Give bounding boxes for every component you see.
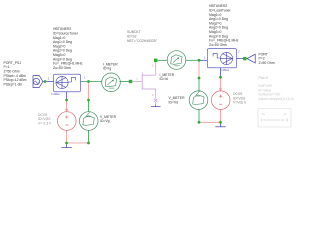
svg-text:Zo=50 Ohm: Zo=50 Ohm [209,43,227,47]
svg-text:3.3Max: 3.3Max [220,68,229,72]
svg-text:V=-2.3 V: V=-2.3 V [38,121,52,125]
svg-text:V=Vds V: V=Vds V [233,101,247,105]
svg-text:Xo: Xo [262,112,266,116]
svg-text:ID=Vd: ID=Vd [169,100,179,104]
svg-text:Z=50 Ohm: Z=50 Ohm [259,61,275,65]
svg-text:ID=Vg: ID=Vg [100,119,110,123]
svg-text:ID=Id: ID=Id [160,77,168,81]
svg-text:. . .: . . . [272,112,276,116]
svg-text:Xn: Xn [284,112,288,116]
svg-text:Values=stepped(3,4,8,5): Values=stepped(3,4,8,5) [258,97,294,101]
svg-text:Pwr=0: Pwr=0 [259,76,269,80]
svg-text:PStep=1 dB: PStep=1 dB [4,82,23,86]
svg-text:3.3Max: 3.3Max [51,92,60,96]
svg-text:ID=Ig: ID=Ig [103,67,111,71]
svg-text:NET="CG2H40025": NET="CG2H40025" [127,39,158,43]
svg-text:Zo=50 Ohm: Zo=50 Ohm [53,66,71,70]
